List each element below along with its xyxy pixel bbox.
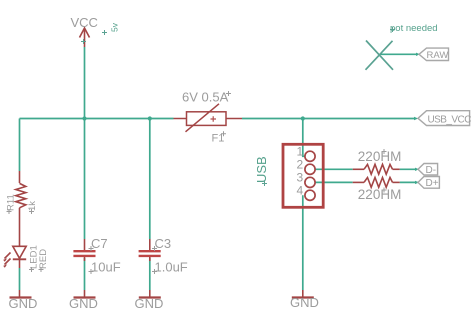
svg-text:USB: USB — [254, 156, 269, 183]
svg-text:R11: R11 — [6, 194, 17, 211]
svg-text:3: 3 — [297, 171, 304, 185]
svg-text:220HM: 220HM — [358, 187, 402, 202]
svg-text:USB_VCC: USB_VCC — [428, 114, 472, 125]
svg-text:6V 0.5A: 6V 0.5A — [182, 90, 229, 105]
svg-text:10uF: 10uF — [91, 260, 121, 275]
svg-text:1k: 1k — [27, 201, 38, 211]
svg-text:1: 1 — [297, 145, 304, 159]
svg-text:220HM: 220HM — [358, 149, 402, 164]
svg-text:5v: 5v — [110, 22, 120, 32]
svg-text:1.0uF: 1.0uF — [155, 260, 188, 275]
svg-text:GND: GND — [69, 296, 98, 311]
svg-text:GND: GND — [290, 295, 319, 310]
svg-text:GND: GND — [135, 296, 164, 311]
svg-text:2: 2 — [297, 158, 304, 172]
svg-text:D-: D- — [426, 165, 437, 176]
svg-text:4: 4 — [297, 184, 304, 198]
svg-text:pot needed: pot needed — [390, 23, 438, 34]
svg-text:D+: D+ — [426, 178, 439, 189]
svg-text:RED: RED — [38, 249, 49, 269]
svg-text:VCC: VCC — [71, 15, 98, 30]
svg-text:RAW: RAW — [427, 50, 449, 61]
svg-text:GND: GND — [9, 296, 38, 311]
